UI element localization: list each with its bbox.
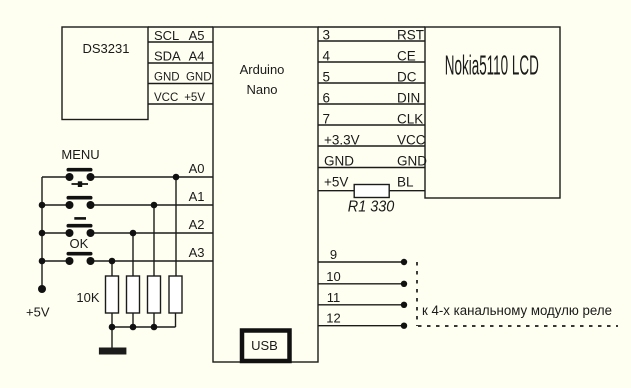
wire: pin A1 button to Arduino right segment <box>91 204 214 206</box>
svg-text:Nokia5110 LCD: Nokia5110 LCD <box>445 50 539 81</box>
svg-text:A1: A1 <box>189 189 205 204</box>
svg-text:R1 330: R1 330 <box>348 199 395 216</box>
resistor R5 330 ohm body <box>354 185 389 198</box>
node: bus junction R2 <box>130 324 137 331</box>
wire: DS3231 pin row top line <box>148 26 213 28</box>
node: pin 12 end <box>401 323 407 329</box>
wire: LCD row line 7-CLK <box>318 124 425 126</box>
wire: Arduino pin 10 <box>318 283 404 285</box>
svg-text:GND: GND <box>154 72 180 84</box>
node: pin 11 end <box>401 302 407 308</box>
svg-text:7: 7 <box>323 112 331 127</box>
wire: pin A2 button to Arduino right segment <box>91 232 214 234</box>
svg-text:4: 4 <box>323 49 331 64</box>
node: bus junction R3 <box>151 324 158 331</box>
wire: pin A1 from button SB2 to Arduino <box>42 204 70 206</box>
button SB1 MENU <box>66 170 95 187</box>
wire: Arduino pin 12 <box>318 325 404 327</box>
ground symbol <box>99 348 127 355</box>
svg-text:12: 12 <box>326 311 340 326</box>
wire: R4 bottom lead <box>175 313 177 327</box>
wire: R2 bottom lead <box>132 313 134 327</box>
resistor R4 10K body <box>169 276 182 313</box>
wire: LCD row line 4-CE <box>318 61 425 63</box>
wire: +5V left rail <box>41 177 43 289</box>
button SB4 OK <box>66 254 95 265</box>
node: pin 10 end <box>401 281 407 287</box>
svg-text:DC: DC <box>397 70 417 85</box>
button SB2 plus <box>66 198 95 209</box>
svg-text:A4: A4 <box>189 49 205 64</box>
wire: pin A2 from button SB3 to Arduino <box>42 232 70 234</box>
node: A1 tap junction <box>151 202 158 209</box>
wire: R4 top lead to A0 <box>175 177 177 276</box>
Arduino Nano U1 box <box>213 27 318 362</box>
svg-text:6: 6 <box>323 91 331 106</box>
node: rail junction A1 <box>39 202 46 209</box>
wire: R1 top lead to A3 <box>111 261 113 276</box>
dashed bracket horizontal to relay module <box>418 325 618 327</box>
svg-text:USB: USB <box>251 338 278 353</box>
svg-text:+5V: +5V <box>324 175 348 190</box>
svg-text:10K: 10K <box>76 290 99 305</box>
wire: resistor bottom bus <box>112 326 176 328</box>
DS3231 module U2 box <box>62 27 148 120</box>
wire: pin A3 button to Arduino right segment <box>91 260 214 262</box>
wire: R2 top lead to A2 <box>132 233 134 276</box>
node: pin 9 end <box>401 259 407 265</box>
svg-text:к 4-х канальному модулю реле: к 4-х канальному модулю реле <box>422 303 612 318</box>
svg-text:Arduino: Arduino <box>240 62 285 77</box>
svg-text:A5: A5 <box>189 28 205 43</box>
wire: DS3231 row line GND/VCC <box>148 83 213 85</box>
svg-text:+5V: +5V <box>184 92 205 104</box>
svg-text:VCC: VCC <box>154 92 178 104</box>
node: rail junction A2 <box>39 230 46 237</box>
svg-text:CE: CE <box>397 49 416 64</box>
svg-text:5: 5 <box>323 70 331 85</box>
resistor R2 10K body <box>127 276 140 313</box>
wire: DS3231 row line SDA/GND <box>148 62 213 64</box>
svg-text:DS3231: DS3231 <box>83 41 130 56</box>
svg-text:BL: BL <box>397 175 414 190</box>
svg-text:GND: GND <box>186 72 212 84</box>
wire: pin A0 from button SB1 to Arduino <box>42 176 70 178</box>
minus label for SB3 <box>74 217 86 220</box>
svg-text:GND: GND <box>324 154 354 169</box>
svg-text:CLK: CLK <box>397 112 423 127</box>
svg-text:RST: RST <box>397 28 424 43</box>
wire: LCD pin row top line <box>318 26 425 28</box>
svg-text:9: 9 <box>330 247 337 262</box>
svg-text:MENU: MENU <box>61 147 99 162</box>
svg-text:Nano: Nano <box>246 82 277 97</box>
node: bus junction R1 <box>109 324 116 331</box>
node: A3 tap junction <box>109 258 116 265</box>
USB connector box <box>242 331 290 362</box>
wire: R3 bottom lead <box>153 313 155 327</box>
resistor R1 10K body <box>106 276 119 313</box>
wire: LCD row line 5-DC <box>318 82 425 84</box>
svg-text:+5V: +5V <box>26 305 50 320</box>
wire: LCD row line 6-DIN <box>318 103 425 105</box>
wire: bus to ground <box>111 327 113 348</box>
svg-text:SDA: SDA <box>154 49 181 64</box>
wire: pin A0 button to Arduino right segment <box>91 176 214 178</box>
wire: R1 bottom lead <box>111 313 113 327</box>
svg-text:VCC: VCC <box>397 133 426 148</box>
wire: pin A3 from button SB4 to Arduino <box>42 260 70 262</box>
node: rail junction A3 <box>39 258 46 265</box>
svg-text:GND: GND <box>397 154 427 169</box>
dashed bracket vertical to relay module <box>416 262 418 326</box>
svg-text:SCL: SCL <box>154 28 179 43</box>
wire: Arduino pin 9 <box>318 261 404 263</box>
node: A0 tap junction <box>173 174 180 181</box>
wire: DS3231 row line SCL/SDA <box>148 41 213 43</box>
svg-text:11: 11 <box>327 290 341 305</box>
wire: Arduino pin 11 <box>318 304 404 306</box>
wire: LCD row line 3-RST <box>318 40 425 42</box>
wire: LCD row line GND-GND <box>318 167 425 169</box>
button SB3 minus <box>66 226 95 237</box>
Nokia5110 LCD U3 box <box>425 27 560 198</box>
wire: +5V to BL through R5 <box>318 190 425 192</box>
svg-text:OK: OK <box>70 236 89 251</box>
wire: LCD row line 3.3V-VCC <box>318 145 425 147</box>
svg-text:A0: A0 <box>189 161 205 176</box>
node: +5V terminal <box>38 285 46 293</box>
svg-text:+3.3V: +3.3V <box>324 133 360 148</box>
wire: DS3231 row line VCC bottom <box>148 103 213 105</box>
svg-text:3: 3 <box>323 28 331 43</box>
svg-text:A3: A3 <box>189 245 205 260</box>
node: A2 tap junction <box>130 230 137 237</box>
svg-text:DIN: DIN <box>397 91 420 106</box>
svg-text:10: 10 <box>326 269 340 284</box>
resistor R3 10K body <box>148 276 161 313</box>
svg-text:A2: A2 <box>189 217 205 232</box>
wire: R3 top lead to A1 <box>153 205 155 276</box>
